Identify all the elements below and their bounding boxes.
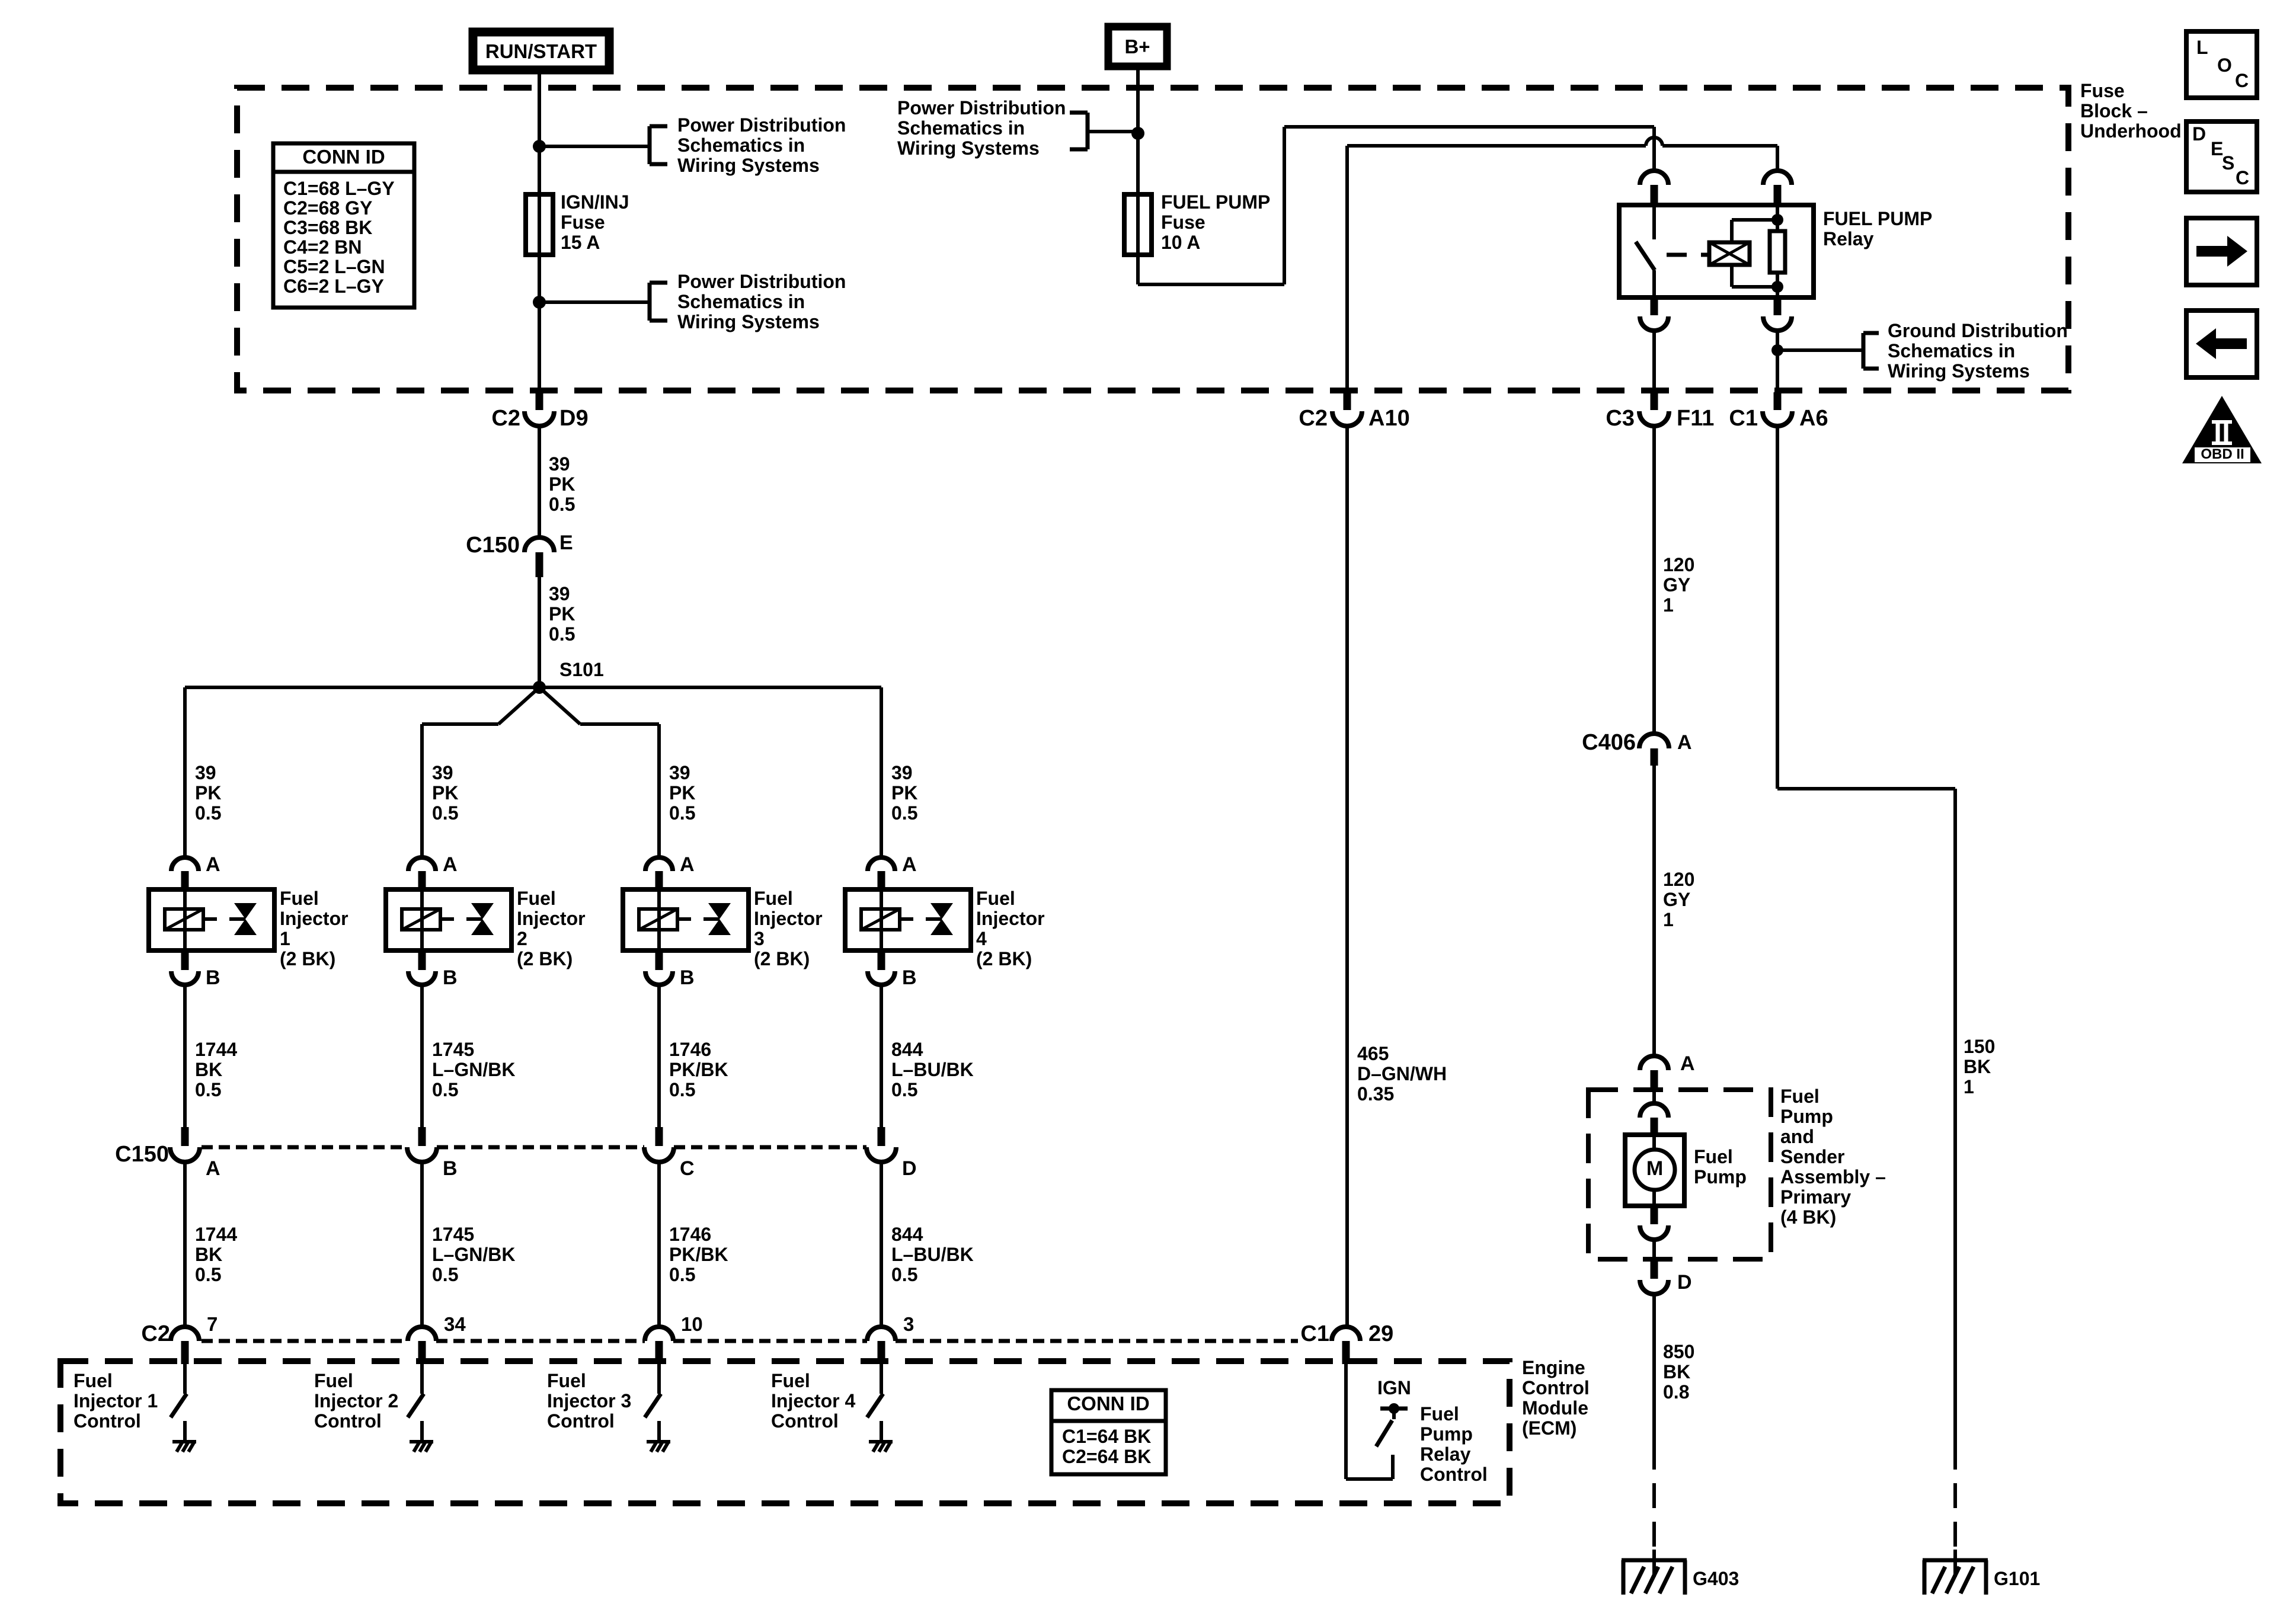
connector C406 A	[1582, 730, 1691, 766]
svg-text:Assembly –: Assembly –	[1780, 1166, 1886, 1188]
svg-text:1746: 1746	[669, 1224, 711, 1245]
icon OBD II triangle	[2182, 396, 2262, 463]
fuel injector 3 component	[623, 889, 749, 970]
connector fuel pump D	[1640, 1259, 1692, 1294]
svg-text:C150: C150	[466, 533, 520, 558]
bracket power distribution 3	[1070, 113, 1088, 149]
label circuit 1745 lower inj 2	[432, 1224, 515, 1285]
svg-text:7: 7	[207, 1313, 218, 1335]
svg-text:Fuse: Fuse	[1161, 212, 1205, 233]
svg-text:(2 BK): (2 BK)	[280, 948, 335, 969]
wire C406 to pump	[1652, 766, 1656, 1056]
svg-text:Injector 2: Injector 2	[314, 1390, 398, 1411]
svg-text:IGN: IGN	[1377, 1377, 1411, 1398]
engine control module dashed boundary	[60, 1361, 1510, 1503]
label G403	[1693, 1568, 1739, 1589]
driver switch injector 2 in ECM	[408, 1364, 424, 1441]
svg-text:B: B	[206, 966, 220, 989]
svg-text:39: 39	[432, 762, 453, 783]
fuel pump relay box	[1619, 205, 1814, 297]
connector C2 A10	[1299, 392, 1409, 431]
svg-text:10 A: 10 A	[1161, 232, 1200, 253]
svg-text:0.35: 0.35	[1357, 1083, 1394, 1105]
svg-text:Schematics in: Schematics in	[897, 117, 1025, 139]
label fuel pump relay	[1823, 208, 1932, 249]
wire injector 2 to C150	[420, 985, 424, 1127]
svg-text:Fuse: Fuse	[561, 212, 605, 233]
wire ign vertical lower	[538, 255, 541, 392]
svg-text:Injector: Injector	[517, 908, 586, 929]
wire D9 to C150	[538, 426, 541, 537]
driver switch injector 1 in ECM	[171, 1364, 187, 1441]
svg-text:C150: C150	[115, 1142, 169, 1167]
svg-text:0.5: 0.5	[432, 802, 458, 824]
wire injector 4 to C150	[880, 985, 883, 1127]
driver switch injector 4 in ECM	[867, 1364, 883, 1441]
connector C150 pin A	[170, 1127, 220, 1180]
svg-text:Relay: Relay	[1420, 1443, 1471, 1465]
svg-text:FUEL PUMP: FUEL PUMP	[1823, 208, 1932, 229]
svg-text:D9: D9	[559, 406, 589, 431]
svg-text:B: B	[680, 966, 695, 989]
svg-text:Control: Control	[73, 1410, 141, 1432]
connector C2 pin 3	[867, 1313, 914, 1364]
svg-text:Control: Control	[771, 1410, 839, 1432]
svg-text:G403: G403	[1693, 1568, 1739, 1589]
svg-text:4: 4	[976, 928, 987, 949]
fuel injector 4 component	[845, 889, 971, 970]
label fuel injector 2 control	[314, 1370, 398, 1432]
svg-text:B+: B+	[1124, 36, 1150, 57]
wire to ground distribution ref	[1777, 348, 1863, 352]
svg-text:C2: C2	[491, 406, 520, 431]
svg-text:Injector: Injector	[976, 908, 1045, 929]
ground injector 2 driver	[410, 1442, 433, 1452]
svg-text:Block –: Block –	[2080, 100, 2148, 121]
svg-text:and: and	[1780, 1126, 1814, 1147]
relay pin top left connector	[1640, 171, 1668, 205]
svg-text:844: 844	[891, 1039, 923, 1060]
wire ground break G101	[1953, 1470, 1957, 1560]
node junction ign upper	[533, 140, 546, 153]
label circuit 120 GY 1 lower	[1663, 869, 1694, 930]
svg-text:Pump: Pump	[1420, 1423, 1473, 1445]
svg-text:0.5: 0.5	[432, 1264, 458, 1285]
svg-text:Injector: Injector	[280, 908, 348, 929]
connector C3 F11	[1606, 392, 1714, 431]
label power distribution 1	[677, 114, 846, 176]
svg-text:15 A: 15 A	[561, 232, 600, 253]
node relay coil bottom	[1771, 281, 1783, 293]
svg-text:(4 BK): (4 BK)	[1780, 1206, 1836, 1228]
CONN ID table ECM	[1051, 1390, 1166, 1474]
driver switch injector 3 in ECM	[645, 1364, 661, 1441]
label fuel injector 4	[976, 888, 1045, 969]
wire fuse to relay switch	[1138, 127, 1654, 284]
svg-text:C: C	[680, 1157, 695, 1180]
label circuit 1745 upper inj 2	[432, 1039, 515, 1100]
connector C150 pin B	[407, 1127, 458, 1180]
svg-text:IGN/INJ: IGN/INJ	[561, 191, 629, 213]
relay switch	[1636, 205, 1655, 297]
svg-text:Ground Distribution: Ground Distribution	[1888, 320, 2068, 341]
svg-text:C2=68 GY: C2=68 GY	[283, 197, 372, 219]
wire S101 left branch	[185, 687, 539, 857]
svg-text:Fuel: Fuel	[1694, 1146, 1733, 1167]
label fuel injector 2	[517, 888, 586, 969]
node splice S101	[533, 659, 604, 694]
svg-text:Fuse: Fuse	[2080, 80, 2125, 101]
connector C1 29	[1300, 1321, 1393, 1364]
label fuel pump	[1694, 1146, 1747, 1188]
connector injector 1 pin B	[171, 966, 220, 989]
svg-text:0.5: 0.5	[891, 802, 917, 824]
connector injector 1 pin A	[171, 853, 220, 891]
connector pump internal bottom	[1640, 1225, 1668, 1259]
label fuel injector 3	[754, 888, 823, 969]
svg-text:844: 844	[891, 1224, 923, 1245]
svg-text:S101: S101	[559, 659, 604, 680]
svg-text:Wiring Systems: Wiring Systems	[897, 137, 1040, 159]
svg-text:CONN ID: CONN ID	[302, 146, 385, 168]
svg-text:C406: C406	[1582, 730, 1636, 755]
svg-text:Fuel: Fuel	[73, 1370, 113, 1391]
svg-text:Primary: Primary	[1780, 1186, 1851, 1208]
svg-text:Schematics in: Schematics in	[1888, 340, 2015, 361]
svg-text:Fuel: Fuel	[1780, 1086, 1819, 1107]
fuse IGN/INJ 15A	[526, 194, 553, 255]
ground G101	[1923, 1550, 1988, 1595]
svg-text:BK: BK	[195, 1059, 222, 1080]
svg-text:OBD II: OBD II	[2201, 446, 2244, 462]
svg-text:Fuel: Fuel	[280, 888, 319, 909]
svg-text:PK: PK	[669, 782, 695, 804]
relay pin top right connector	[1763, 171, 1792, 205]
CONN ID table fuse block	[273, 143, 414, 308]
wire ground break G403	[1652, 1470, 1656, 1560]
label circuit 850	[1663, 1341, 1694, 1403]
label fuse FUEL PUMP	[1161, 191, 1270, 253]
svg-text:RUN/START: RUN/START	[485, 40, 597, 62]
svg-text:Power Distribution: Power Distribution	[677, 114, 846, 136]
svg-text:B: B	[902, 966, 917, 989]
svg-text:0.5: 0.5	[432, 1079, 458, 1100]
svg-text:1746: 1746	[669, 1039, 711, 1060]
wire ign vertical upper	[538, 88, 541, 255]
connector injector 2 pin A	[408, 853, 458, 891]
svg-text:0.5: 0.5	[195, 802, 221, 824]
connector injector 2 pin B	[408, 966, 458, 989]
connector pump internal top	[1640, 1089, 1668, 1135]
bracket power distribution 1	[650, 126, 667, 164]
label circuit 39 PK 0.5 a	[549, 453, 575, 515]
label circuit 1746 lower inj 3	[669, 1224, 728, 1285]
svg-text:0.5: 0.5	[669, 802, 695, 824]
connector injector 3 pin B	[645, 966, 695, 989]
wire C150 A to C2	[183, 1162, 187, 1327]
label fuel pump assembly	[1780, 1086, 1886, 1228]
svg-text:1: 1	[280, 928, 290, 949]
svg-text:120: 120	[1663, 554, 1694, 575]
svg-text:0.5: 0.5	[669, 1079, 695, 1100]
svg-text:A: A	[680, 853, 695, 876]
svg-text:L–BU/BK: L–BU/BK	[891, 1059, 974, 1080]
label fuse IGN/INJ	[561, 191, 629, 253]
svg-text:Control: Control	[1420, 1464, 1488, 1485]
connector C150 E	[466, 532, 573, 577]
label circuit 1744 upper inj 1	[195, 1039, 237, 1100]
svg-text:C2: C2	[1299, 406, 1328, 431]
svg-text:PK/BK: PK/BK	[669, 1244, 728, 1265]
svg-text:A: A	[443, 853, 458, 876]
svg-text:39: 39	[669, 762, 690, 783]
svg-text:Fuel: Fuel	[771, 1370, 810, 1391]
wire to power distribution ref 2	[539, 300, 650, 304]
svg-text:Underhood: Underhood	[2080, 120, 2182, 142]
svg-text:C3: C3	[1606, 406, 1635, 431]
node junction a6 ground ref	[1771, 344, 1783, 356]
svg-text:Control: Control	[547, 1410, 615, 1432]
label circuit 39 PK 0.5 injector 2	[432, 762, 458, 824]
label fuel injector 3 control	[547, 1370, 631, 1432]
svg-text:Power Distribution: Power Distribution	[677, 271, 846, 292]
svg-text:1745: 1745	[432, 1039, 474, 1060]
svg-text:C1: C1	[1300, 1321, 1329, 1346]
svg-text:Relay: Relay	[1823, 228, 1874, 249]
connector injector 4 pin A	[868, 853, 917, 891]
node junction ign lower	[533, 296, 546, 309]
svg-text:D: D	[1677, 1271, 1692, 1294]
svg-text:39: 39	[195, 762, 216, 783]
svg-text:PK/BK: PK/BK	[669, 1059, 728, 1080]
svg-text:150: 150	[1964, 1036, 1995, 1057]
wire B+ down	[1136, 70, 1140, 284]
svg-text:0.5: 0.5	[669, 1264, 695, 1285]
svg-text:A: A	[1680, 1052, 1695, 1075]
label circuit 465	[1357, 1043, 1447, 1105]
svg-text:A: A	[902, 853, 917, 876]
relay coil	[1709, 220, 1777, 287]
svg-text:3: 3	[903, 1313, 914, 1335]
svg-text:Injector 3: Injector 3	[547, 1390, 631, 1411]
label circuit 1744 lower inj 1	[195, 1224, 237, 1285]
label circuit 39 PK 0.5 injector 4	[891, 762, 917, 824]
node junction b+	[1131, 127, 1144, 140]
svg-text:Engine: Engine	[1522, 1357, 1585, 1378]
svg-text:Schematics in: Schematics in	[677, 291, 805, 312]
label fuel injector 1	[280, 888, 348, 969]
connector C2 pin 34	[408, 1313, 466, 1364]
label fuel injector 1 control	[73, 1370, 158, 1432]
svg-text:B: B	[443, 1157, 458, 1180]
bracket ground distribution	[1863, 333, 1879, 369]
wire S101 inner right branch	[539, 687, 659, 857]
icon arrow right box	[2186, 218, 2257, 285]
svg-text:C: C	[2236, 167, 2249, 188]
label power distribution 2	[677, 271, 846, 332]
fuel pump motor	[1625, 1135, 1684, 1224]
wire S101 right branch	[539, 687, 881, 857]
icon DESC box	[2186, 121, 2257, 192]
node RUN/START	[473, 32, 609, 70]
svg-text:0.5: 0.5	[549, 494, 575, 515]
wire C150 D to C2	[880, 1162, 883, 1327]
svg-text:Fuel: Fuel	[754, 888, 793, 909]
wire RUN/START to fuse block	[538, 73, 541, 89]
svg-text:PK: PK	[432, 782, 458, 804]
label circuit 844 upper inj 4	[891, 1039, 974, 1100]
wire C150 C to C2	[657, 1162, 661, 1327]
fuel pump assembly dashed boundary	[1588, 1090, 1771, 1259]
svg-text:2: 2	[517, 928, 527, 949]
fuel injector 1 component	[149, 889, 274, 970]
svg-text:Wiring Systems: Wiring Systems	[677, 311, 820, 332]
svg-text:Schematics in: Schematics in	[677, 135, 805, 156]
label fuel injector 4 control	[771, 1370, 855, 1432]
wire injector 3 to C150	[657, 985, 661, 1127]
relay pin bottom right connector	[1763, 297, 1792, 392]
relay resistor	[1770, 205, 1785, 297]
svg-text:D: D	[902, 1157, 917, 1180]
ground injector 4 driver	[869, 1442, 893, 1452]
svg-text:A: A	[206, 1157, 220, 1180]
svg-text:0.8: 0.8	[1663, 1381, 1689, 1403]
connector fuel pump A	[1640, 1052, 1695, 1089]
ground G403	[1622, 1550, 1687, 1595]
svg-text:(2 BK): (2 BK)	[754, 948, 810, 969]
svg-text:BK: BK	[1964, 1056, 1991, 1077]
wire bracket3 to junction	[1088, 130, 1138, 133]
connector C150 pin D	[866, 1127, 917, 1180]
fuel injector 2 component	[386, 889, 511, 970]
svg-text:1: 1	[1964, 1076, 1974, 1097]
node relay coil top	[1771, 214, 1783, 226]
svg-text:465: 465	[1357, 1043, 1389, 1064]
svg-text:L–BU/BK: L–BU/BK	[891, 1244, 974, 1265]
relay actuator dashed link	[1667, 253, 1709, 257]
svg-text:Sender: Sender	[1780, 1146, 1844, 1167]
svg-text:Fuel: Fuel	[314, 1370, 353, 1391]
svg-text:GY: GY	[1663, 574, 1690, 596]
fuse block label	[2080, 80, 2182, 142]
label circuit 39 PK 0.5 b	[549, 583, 575, 645]
connector injector 3 pin A	[645, 853, 695, 891]
svg-text:(ECM): (ECM)	[1522, 1417, 1576, 1439]
svg-text:1744: 1744	[195, 1039, 237, 1060]
svg-text:PK: PK	[195, 782, 221, 804]
svg-text:(2 BK): (2 BK)	[517, 948, 573, 969]
svg-text:34: 34	[444, 1313, 466, 1335]
svg-text:Wiring Systems: Wiring Systems	[1888, 360, 2030, 382]
wire S101 inner left branch	[422, 687, 539, 857]
svg-text:Fuel: Fuel	[517, 888, 556, 909]
svg-text:1744: 1744	[195, 1224, 237, 1245]
svg-text:C1=68 L–GY: C1=68 L–GY	[283, 178, 395, 199]
svg-text:E: E	[559, 532, 573, 554]
svg-text:C2: C2	[141, 1321, 170, 1346]
svg-text:Fuel: Fuel	[1420, 1403, 1459, 1425]
svg-text:L–GN/BK: L–GN/BK	[432, 1059, 515, 1080]
label ground distribution	[1888, 320, 2068, 382]
icon LOC box	[2186, 31, 2257, 98]
wire F11 to C406	[1652, 426, 1656, 734]
svg-text:A6: A6	[1799, 406, 1828, 431]
svg-text:Control: Control	[314, 1410, 382, 1432]
wire D to G403	[1652, 1294, 1656, 1470]
svg-text:Fuel: Fuel	[976, 888, 1015, 909]
svg-text:C: C	[2235, 70, 2249, 91]
ground injector 1 driver	[172, 1442, 196, 1452]
svg-text:G101: G101	[1994, 1568, 2040, 1589]
label circuit 150	[1964, 1036, 1995, 1097]
svg-text:C1: C1	[1729, 406, 1758, 431]
label G101	[1994, 1568, 2040, 1589]
label circuit 844 lower inj 4	[891, 1224, 974, 1285]
connector injector 4 pin B	[868, 966, 917, 989]
svg-text:C2=64 BK: C2=64 BK	[1062, 1446, 1151, 1467]
svg-text:FUEL PUMP: FUEL PUMP	[1161, 191, 1270, 213]
svg-text:L–GN/BK: L–GN/BK	[432, 1244, 515, 1265]
wire A10 to C1 29	[1345, 426, 1349, 1327]
svg-text:0.5: 0.5	[891, 1264, 917, 1285]
svg-text:120: 120	[1663, 869, 1694, 890]
svg-text:Pump: Pump	[1694, 1166, 1747, 1188]
wire C150 to S101	[538, 577, 541, 687]
svg-text:Injector: Injector	[754, 908, 823, 929]
label C150 connector	[115, 1142, 169, 1167]
svg-text:1: 1	[1663, 594, 1674, 616]
connector C2 pin 7	[171, 1313, 218, 1364]
svg-text:PK: PK	[549, 473, 575, 495]
label circuit 120 GY 1 upper	[1663, 554, 1694, 616]
svg-text:BK: BK	[1663, 1361, 1690, 1382]
svg-text:M: M	[1646, 1157, 1663, 1180]
svg-text:S: S	[2222, 152, 2234, 174]
icon arrow left box	[2186, 311, 2257, 377]
svg-text:A: A	[1677, 731, 1692, 754]
svg-text:(2 BK): (2 BK)	[976, 948, 1032, 969]
fuse FUEL PUMP 10A	[1124, 194, 1152, 255]
wire injector 1 to C150	[183, 985, 187, 1127]
svg-text:A: A	[206, 853, 220, 876]
svg-text:A10: A10	[1368, 406, 1410, 431]
svg-text:C5=2 L–GN: C5=2 L–GN	[283, 256, 385, 277]
svg-text:Module: Module	[1522, 1397, 1588, 1419]
svg-text:C1=64 BK: C1=64 BK	[1062, 1426, 1151, 1447]
svg-text:1745: 1745	[432, 1224, 474, 1245]
ground injector 3 driver	[647, 1442, 670, 1452]
fuse block underhood dashed boundary	[237, 88, 2068, 391]
svg-text:0.5: 0.5	[549, 623, 575, 645]
label IGN	[1377, 1377, 1411, 1398]
svg-text:BK: BK	[195, 1244, 222, 1265]
label fuel pump relay control	[1420, 1403, 1488, 1485]
wire A6 to G101	[1777, 426, 1955, 1470]
svg-text:O: O	[2217, 55, 2232, 76]
label engine control module	[1522, 1357, 1590, 1439]
bracket power distribution 2	[650, 283, 667, 321]
svg-text:GY: GY	[1663, 889, 1690, 910]
wire ecm control to relay coil	[1347, 137, 1777, 392]
ecm fuel pump relay driver	[1346, 1364, 1408, 1479]
svg-text:PK: PK	[549, 603, 575, 625]
svg-text:C4=2 BN: C4=2 BN	[283, 236, 362, 258]
svg-text:1: 1	[1663, 909, 1674, 930]
svg-text:C3=68 BK: C3=68 BK	[283, 217, 372, 238]
svg-text:39: 39	[891, 762, 913, 783]
connector C150 pin C	[644, 1127, 695, 1180]
svg-text:10: 10	[681, 1313, 703, 1335]
